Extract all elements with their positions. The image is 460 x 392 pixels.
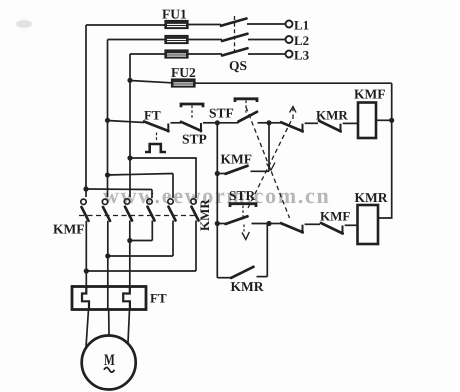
contact KMR main 1 [147, 199, 155, 241]
svg-text:KMF: KMF [320, 209, 350, 224]
wire KMR1 feed [86, 189, 152, 198]
junction STF input [215, 120, 220, 125]
coil KMR [358, 205, 379, 244]
fuse FU2 [172, 79, 196, 87]
fuse FU1-3 [165, 50, 188, 58]
contact KMF main 1 [81, 199, 89, 271]
linkage main contacts (dashed) [79, 215, 198, 217]
junction FU2 tap [127, 78, 132, 83]
wire V through box [107, 287, 109, 310]
heater FT phase W [123, 287, 130, 310]
wire W down [129, 241, 131, 287]
wire FU2 branch [130, 81, 392, 84]
junction STR row [215, 221, 220, 226]
svg-text:FT: FT [150, 291, 167, 306]
wire phase-3 vertical [129, 54, 131, 197]
contact KMF main 2 [102, 199, 110, 256]
svg-text:KMF: KMF [53, 222, 85, 237]
contact STR interlock (NC) row1 [269, 122, 318, 132]
svg-text:FT: FT [144, 108, 161, 123]
svg-text:L2: L2 [294, 33, 309, 48]
junction output V [105, 253, 110, 258]
button STR (NO start reverse) [217, 204, 269, 240]
contact KMR selfhold (NO) row3 [217, 224, 267, 278]
svg-text:FU1: FU1 [162, 7, 187, 22]
svg-text:KMF: KMF [354, 87, 386, 102]
svg-text:L1: L1 [294, 18, 309, 33]
fuse FU1-2 [165, 36, 188, 44]
contact KMR main 3 [191, 199, 199, 271]
junction KMR3 feed [127, 155, 132, 160]
junction STF output [266, 120, 271, 125]
heater FT phase U [82, 287, 89, 310]
svg-text:QS: QS [229, 58, 247, 73]
terminal L1 [286, 18, 310, 33]
junction rail KMF [389, 118, 394, 123]
wire KMR1 to W [130, 240, 153, 242]
wire KMR2 to V [108, 255, 173, 257]
coil KMF [358, 103, 376, 139]
wire V down [107, 256, 109, 287]
wire phase-1 vertical [85, 25, 87, 197]
svg-text:KMR: KMR [316, 108, 348, 123]
button STF (NO start forward) [217, 99, 266, 123]
switch QS blade 1 [221, 19, 247, 26]
contact KMR (NC interlock) row1 [319, 121, 358, 133]
contact KMR main 2 [168, 199, 176, 256]
svg-text:FU2: FU2 [171, 65, 196, 80]
wire control row1 [108, 121, 145, 123]
wire U to motor [86, 310, 89, 348]
contact STF interlock (NC) row2 [269, 223, 320, 234]
wire KMR3 to U [86, 270, 196, 272]
fuse FU1-1 [165, 21, 188, 29]
contact KMF (NC interlock) row2 [321, 223, 358, 235]
wire STF branch vertical [216, 123, 218, 278]
contact FT (NC, thermal relay) [144, 122, 181, 153]
junction control tap [105, 118, 110, 123]
switch QS blade 3 [222, 48, 248, 55]
svg-text:M: M [104, 352, 115, 369]
smudge [16, 20, 32, 28]
wire L1 [86, 24, 286, 25]
svg-text:KMR: KMR [197, 199, 212, 231]
svg-text:STF: STF [209, 106, 234, 121]
svg-text:STP: STP [182, 132, 207, 147]
motor M [82, 336, 136, 390]
linkage STF to row2 (dashed) [246, 107, 290, 218]
junction STR output [266, 221, 271, 226]
junction output U [84, 268, 89, 273]
button STP (NC stop) [181, 104, 215, 132]
wire V to motor [108, 310, 110, 337]
terminal L2 [286, 33, 310, 48]
linkage STR to row1 (dashed) [248, 107, 296, 209]
wire L3 [130, 53, 286, 55]
junction selfhold KMF [215, 171, 220, 176]
junction KMR1 feed [83, 186, 88, 191]
terminal L3 [286, 48, 310, 63]
switch QS blade 2 [222, 34, 248, 41]
svg-text:KMF: KMF [221, 152, 253, 167]
junction KMR2 feed [105, 172, 110, 177]
wire right rail [378, 83, 392, 218]
wire KMR3 feed [130, 158, 196, 198]
wire U down [85, 271, 87, 287]
wire KMR2 feed [108, 174, 174, 199]
wire W to motor [128, 310, 130, 348]
wire coil KMF to rail [376, 119, 392, 121]
svg-text:KMR: KMR [231, 279, 264, 294]
contact KMF selfhold (NO) [217, 123, 269, 174]
junction output W [127, 238, 132, 243]
svg-text:L3: L3 [294, 48, 310, 63]
wire L2 [108, 39, 286, 41]
relay FT box [72, 287, 146, 310]
switch QS link (dashed) [234, 16, 236, 54]
wire phase-2 vertical [107, 40, 109, 198]
contact KMF main 3 [124, 199, 132, 241]
svg-text:KMR: KMR [355, 190, 388, 205]
